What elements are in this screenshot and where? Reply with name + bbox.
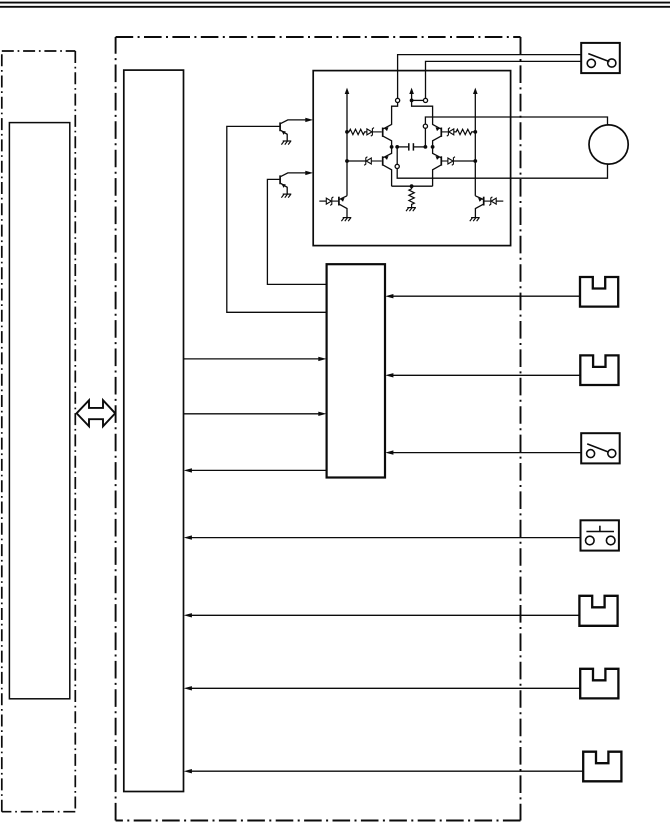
main dash-dot enclosure xyxy=(116,37,521,821)
bottom bias rail xyxy=(392,185,433,187)
transistor Q3 xyxy=(433,124,442,145)
bidirectional bus arrow xyxy=(77,400,116,426)
pushbutton SW3 xyxy=(581,520,619,550)
wire Q5 collector arrow into U1 xyxy=(305,118,313,122)
transistor Q1 xyxy=(383,124,392,145)
transistor Q5 xyxy=(280,120,307,141)
switch SW2 xyxy=(581,433,620,463)
node right rail lower xyxy=(473,159,477,163)
node right rail upper xyxy=(473,130,477,134)
node bridge left output xyxy=(395,145,399,149)
wire Q6 collector arrow into U1 xyxy=(305,171,313,175)
zener diode D1 xyxy=(367,128,382,137)
connector J2 xyxy=(580,355,618,385)
wire motor top lead xyxy=(425,117,607,125)
wire U2 to controller xyxy=(184,468,327,472)
capacitor C1 xyxy=(397,143,425,150)
motor driver box U1 xyxy=(313,71,510,246)
interface block U2 xyxy=(327,264,385,477)
wire Q1 emitter to P1 xyxy=(392,103,398,125)
left bias rail with arrow xyxy=(345,88,350,196)
page top border (double rule) xyxy=(0,3,670,7)
connector J4 xyxy=(580,669,618,699)
wire J5 to controller xyxy=(184,769,584,773)
zener diode D5 xyxy=(319,197,338,206)
wire SW1 to bridge terminal P2 xyxy=(426,61,582,98)
transistor Q7 xyxy=(339,196,347,217)
terminal bridge left output xyxy=(395,147,399,169)
connector J5 xyxy=(583,752,621,782)
left inner block xyxy=(9,123,69,699)
supply arrow A0 xyxy=(409,88,414,101)
wire SW1 to bridge terminal P1 xyxy=(398,55,582,99)
wire J4 to controller xyxy=(184,686,581,690)
ground G4 xyxy=(281,141,291,145)
terminal bridge right output xyxy=(423,124,427,147)
wire J3 to controller xyxy=(184,613,580,617)
wire U2 to Q5 base xyxy=(227,126,327,312)
node left rail lower xyxy=(345,159,349,163)
wire U2 to Q6 base xyxy=(267,179,326,284)
ground G2 xyxy=(470,218,480,222)
transistor Q2 xyxy=(383,147,392,186)
resistor R2 xyxy=(454,129,475,134)
wire controller to U2 lower xyxy=(184,412,327,416)
wire SW3 to controller xyxy=(184,535,581,539)
node J0 xyxy=(410,99,414,103)
switch SW1 xyxy=(581,43,620,73)
right bias rail with arrow xyxy=(473,88,478,196)
wire J2 to U2 xyxy=(385,373,580,377)
ground G1 xyxy=(341,218,351,222)
node left rail upper xyxy=(345,130,349,134)
ground G5 xyxy=(281,194,291,198)
zener diode D3 xyxy=(442,128,454,137)
motor M xyxy=(589,125,628,164)
zener diode D2 xyxy=(347,157,382,166)
main controller block xyxy=(124,70,184,791)
wire motor bottom lead xyxy=(397,164,607,178)
node bridge right output xyxy=(424,145,428,149)
terminal P1 xyxy=(396,98,400,102)
terminal P2 xyxy=(423,98,427,102)
wire J1 to U2 xyxy=(385,294,580,298)
node Q1/Q2 collectors xyxy=(390,145,394,149)
connector J1 xyxy=(580,277,618,307)
ECU dash-dot enclosure (left) xyxy=(2,51,76,812)
transistor Q8 xyxy=(475,196,483,217)
ground G3 xyxy=(406,208,416,212)
node bottom rail xyxy=(410,184,414,188)
transistor Q6 xyxy=(280,173,307,194)
resistor R3 xyxy=(409,186,414,207)
wire SW2 to U2 xyxy=(385,450,581,454)
zener diode D4 xyxy=(442,157,475,166)
wire Q3 emitter to node J0 xyxy=(412,100,433,125)
wire controller to U2 upper xyxy=(184,357,327,361)
zener diode D6 xyxy=(484,197,503,206)
node Q3/Q4 collectors xyxy=(431,145,435,149)
connector J3 xyxy=(579,596,617,626)
resistor R1 xyxy=(347,129,367,134)
transistor Q4 xyxy=(433,147,442,186)
wire J0 to P2 xyxy=(412,99,424,101)
